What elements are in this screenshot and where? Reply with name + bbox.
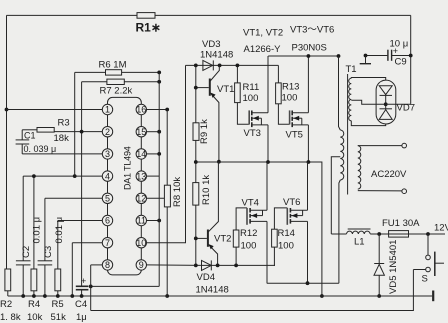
svg-text:13: 13	[136, 171, 146, 181]
svg-text:100: 100	[278, 241, 294, 252]
node junction R6/pin4	[73, 174, 77, 178]
wire right +12V vertical	[410, 15, 412, 104]
wire L1 left lead	[331, 233, 346, 235]
node junction R6 right	[157, 71, 161, 75]
node junction R10/VD4 line	[194, 264, 198, 268]
wire C9 right lead	[392, 55, 411, 57]
node junction pin11	[157, 219, 161, 223]
wire R10 bottom	[195, 205, 197, 265]
capacitor C1 bottom lead	[21, 144, 23, 154]
node junction VT5/VT6/mid bus	[307, 160, 311, 164]
node junction R12/VD4 line	[234, 264, 238, 268]
svg-text:R11: R11	[243, 82, 260, 93]
node junction VD7 center	[384, 102, 388, 106]
node junction VT2 emitter / VD4 line	[216, 264, 220, 268]
transistor VT6	[286, 208, 288, 225]
resistor R4	[31, 269, 37, 291]
wire pin10	[147, 65, 186, 242]
terminal switch upper	[426, 255, 431, 260]
node junction pin16	[165, 108, 169, 112]
wire pin7	[72, 242, 102, 244]
node junction left border / pin1	[5, 108, 9, 112]
wire pin8 down	[90, 265, 92, 311]
wire T1 left winding tap	[331, 157, 340, 234]
svg-text:C4: C4	[75, 299, 87, 310]
svg-text:6: 6	[105, 216, 110, 226]
wire C3 bottom lead	[44, 265, 46, 296]
svg-text:VD3: VD3	[202, 39, 220, 50]
node junction VD3/R9	[194, 64, 198, 68]
resistor R13	[276, 83, 282, 104]
wire pin1 to left border	[7, 109, 103, 111]
svg-text:12: 12	[136, 194, 146, 204]
transistor VT5 drain riser	[307, 56, 309, 113]
transistor VT3 source riser	[267, 125, 269, 162]
svg-text:0. 039 μ: 0. 039 μ	[24, 144, 57, 154]
svg-text:5: 5	[105, 194, 110, 204]
svg-text:8: 8	[105, 260, 110, 270]
inductor L1 core bar	[348, 228, 371, 230]
transistor VT5 arrow	[293, 116, 299, 121]
svg-text:R3: R3	[58, 118, 70, 129]
svg-text:VD5 1N5401: VD5 1N5401	[388, 240, 399, 294]
wire C2 bottom lead	[22, 265, 24, 296]
svg-text:R1∗: R1∗	[136, 21, 161, 35]
wire VT4/VT6 drain rail	[267, 282, 339, 284]
wire pin6	[58, 220, 103, 222]
terminal AC bottom	[402, 189, 407, 194]
wire T1 secondary bottom lead	[358, 190, 402, 192]
pin 12 of DA1	[136, 193, 146, 203]
transistor VT5 arrow link	[301, 118, 303, 125]
svg-text:+: +	[81, 276, 86, 286]
svg-text:100: 100	[282, 93, 298, 104]
node junction C2/rail	[21, 294, 25, 298]
node junction pin7/rail	[70, 294, 74, 298]
wire R4 vertical	[33, 176, 35, 269]
node junction VT6 drain / rail	[306, 281, 310, 285]
wire R13 top	[277, 65, 279, 83]
pin 6 of DA1	[102, 215, 112, 225]
svg-text:R2: R2	[0, 299, 12, 310]
transistor VT2 base lead	[196, 237, 207, 239]
diode VD4	[202, 260, 212, 270]
wire R14 bottom	[273, 247, 276, 265]
wire pin4	[23, 175, 102, 177]
wire switch lower to border	[413, 269, 425, 271]
pin 7 of DA1	[102, 238, 112, 248]
node junction VT1 base	[194, 86, 198, 90]
svg-text:L1: L1	[354, 237, 365, 248]
wire R7 left lead	[82, 81, 107, 83]
transistor VT6 arrow link	[302, 210, 304, 215]
node junction R8/rail	[165, 294, 169, 298]
transistor VT1 emitter	[210, 93, 219, 162]
transistor VT1 collector	[210, 65, 220, 81]
node junction VD5/rail	[377, 294, 381, 298]
transistor VT2 emitter arrow	[209, 244, 214, 249]
node junction VT1 emitter / mid bus	[217, 160, 221, 164]
pin 4 of DA1	[102, 171, 112, 181]
wire pin16 to R8 line	[147, 109, 168, 111]
pin 16 of DA1	[136, 104, 146, 114]
transistor VT3 gate lead	[237, 103, 249, 125]
transistor VT2 emitter	[208, 244, 218, 265]
wire R8 bottom	[166, 207, 168, 296]
svg-text:1: 1	[105, 105, 110, 115]
transistor VT4 arrow	[251, 213, 257, 218]
wire pin5	[45, 197, 102, 199]
svg-text:VD7: VD7	[397, 103, 415, 114]
transistor VT6 arrow	[291, 213, 297, 218]
wire VD3 line	[186, 64, 279, 66]
svg-text:0.01 μ: 0.01 μ	[54, 217, 65, 244]
svg-text:A1266-Y: A1266-Y	[244, 44, 282, 55]
svg-text:4: 4	[105, 171, 110, 181]
fuse FU1	[389, 231, 409, 238]
wire C2 vertical	[22, 176, 24, 261]
wire VD5 top lead	[378, 234, 380, 264]
ground symbol at C9	[365, 56, 367, 64]
svg-text:S: S	[422, 274, 428, 285]
inductor T1 primary left winding	[340, 130, 343, 180]
svg-text:3: 3	[105, 149, 110, 159]
svg-text:VT3: VT3	[244, 128, 261, 139]
transistor VT4 gate lead	[236, 208, 247, 230]
svg-text:R10 1k: R10 1k	[201, 175, 212, 205]
node junction VD3 cathode	[218, 64, 222, 68]
switch S blade	[434, 252, 436, 276]
node junction C3/rail	[43, 294, 47, 298]
wire R2 top lead	[7, 268, 8, 270]
resistor R6	[106, 70, 122, 75]
terminal AC top	[402, 143, 407, 148]
transistor VT2 collector	[208, 162, 219, 233]
svg-text:0.01 μ: 0.01 μ	[32, 217, 43, 244]
pin 10 of DA1	[136, 238, 146, 248]
transistor VT1 emitter arrow	[211, 93, 216, 98]
resistor R8	[164, 185, 170, 207]
svg-text:C2: C2	[21, 246, 32, 258]
node junction R4/rail	[32, 294, 36, 298]
svg-text:18k: 18k	[54, 133, 70, 144]
node junction VT5 drain / top bus	[307, 54, 311, 58]
wire R10 top	[195, 162, 197, 183]
svg-text:VT1, VT2: VT1, VT2	[243, 28, 283, 39]
transistor VT2 base bar	[207, 230, 209, 247]
node junction VT2 base	[194, 237, 198, 241]
wire ground rail	[8, 295, 432, 297]
wire T1 secondary top lead	[358, 145, 402, 147]
wire T1 left winding bottom	[339, 180, 340, 283]
svg-text:R7 2.2k: R7 2.2k	[100, 86, 133, 97]
wire R7/C4 vertical	[81, 82, 83, 286]
node junction C4/rail	[80, 294, 84, 298]
inductor T1 secondary winding	[358, 146, 361, 189]
inductor T1 feedback winding	[349, 78, 352, 120]
wire T1 feedback top lead	[351, 78, 385, 81]
svg-text:VT4: VT4	[242, 198, 259, 209]
node junction pin14	[157, 152, 161, 156]
wire VD7 center to +12V	[386, 103, 411, 105]
svg-text:12V: 12V	[434, 223, 448, 234]
wire R12 bottom	[235, 247, 237, 265]
resistor R10	[193, 183, 199, 206]
inductor L1	[347, 231, 371, 234]
node junction top bus right	[337, 54, 341, 58]
svg-text:R12: R12	[240, 228, 257, 239]
node junction L1/VD5	[377, 232, 381, 236]
wire C4 bottom lead	[81, 290, 83, 296]
svg-text:R9 1k: R9 1k	[199, 119, 210, 144]
wire pin15	[147, 131, 160, 133]
wire R9 bottom	[195, 140, 197, 162]
wire VD5 bottom lead	[378, 275, 380, 296]
svg-text:7: 7	[105, 238, 110, 248]
svg-text:R14: R14	[278, 228, 295, 239]
wire R5 vertical	[57, 221, 59, 270]
wire W1 under IC	[91, 285, 160, 287]
wire pin3 to C1	[22, 153, 102, 155]
diode VD3	[203, 60, 213, 70]
svg-text:VT5: VT5	[286, 130, 303, 141]
wire R9 top	[195, 65, 197, 122]
resistor R9	[193, 123, 199, 141]
wire pin13	[147, 175, 160, 177]
transistor VT5 source riser	[307, 125, 309, 162]
node junction R7 right	[157, 80, 161, 84]
pin 11 of DA1	[136, 215, 146, 225]
wire pin14	[147, 153, 160, 155]
resistor R7	[107, 79, 124, 84]
pin 14 of DA1	[136, 149, 146, 159]
node junction mid bus / rail	[320, 294, 324, 298]
wire T1 feedback bottom lead	[351, 121, 385, 126]
svg-text:16: 16	[136, 105, 146, 115]
pin 1 of DA1	[102, 104, 112, 114]
svg-text:1. 8k: 1. 8k	[0, 312, 21, 323]
transistor VT4 source riser	[266, 162, 268, 210]
transistor VT6 source riser	[307, 162, 309, 210]
wire top rail right segment	[155, 14, 411, 16]
transistor VT6 gate lead	[274, 208, 287, 229]
svg-text:100: 100	[243, 93, 259, 104]
capacitor C1 plates	[16, 139, 30, 141]
pin 3 of DA1	[102, 149, 112, 159]
svg-text:10: 10	[136, 238, 146, 248]
node junction 12V/S	[426, 232, 430, 236]
pin 2 of DA1	[102, 127, 112, 137]
node junction R9/R10/mid bus	[194, 160, 198, 164]
svg-text:10k: 10k	[27, 312, 43, 323]
transistor VT1 base lead	[196, 87, 209, 89]
pin 9 of DA1	[136, 260, 146, 270]
wire C9 left lead	[366, 55, 388, 57]
transistor VT3 arrow	[253, 116, 259, 121]
wire R7 right lead	[124, 81, 159, 83]
svg-text:R8 10k: R8 10k	[172, 177, 183, 207]
capacitor C4 plates	[76, 285, 89, 287]
transistor VT3 arrow link	[260, 118, 262, 125]
svg-text:R6 1M: R6 1M	[99, 60, 127, 71]
svg-text:FU1 30A: FU1 30A	[382, 218, 420, 229]
svg-text:VD4: VD4	[197, 272, 215, 283]
svg-text:9: 9	[139, 260, 144, 270]
svg-text:R5: R5	[52, 299, 64, 310]
pin 13 of DA1	[136, 171, 146, 181]
wire C3 vertical	[44, 198, 46, 260]
wire R6 left lead	[75, 71, 106, 73]
node junction pin15	[157, 130, 161, 134]
wire bottom border	[91, 270, 414, 311]
transistor VT3	[248, 110, 250, 124]
svg-text:C3: C3	[43, 246, 54, 258]
wire R3 left lead	[22, 129, 37, 131]
wire pin9 / VD4 line left part	[147, 264, 201, 267]
wire T1 feedback tap	[351, 100, 385, 104]
resistor R2	[5, 269, 11, 291]
svg-text:VT6: VT6	[283, 197, 300, 208]
capacitor C9 plates	[387, 50, 389, 61]
wire mid ground bus	[196, 162, 322, 296]
capacitor C1 top lead	[21, 130, 23, 140]
diode pair VD7 outline	[376, 80, 396, 124]
resistor R5	[55, 269, 61, 291]
wire pin11	[147, 220, 160, 222]
wire VD4 line	[201, 264, 275, 266]
node junction R5/rail	[56, 294, 60, 298]
svg-text:T1: T1	[346, 64, 357, 75]
wire pin2 to R3	[54, 131, 102, 133]
pin 8 of DA1	[102, 260, 112, 270]
svg-text:15: 15	[136, 127, 146, 137]
node junction R11 top	[236, 64, 240, 68]
node junction C9 left	[364, 54, 368, 58]
wire top bus to primary top	[339, 56, 341, 130]
resistor R1	[137, 13, 155, 19]
svg-text:1N4148: 1N4148	[196, 285, 229, 296]
wire R4 bottom lead	[33, 291, 35, 296]
transistor VT1 base bar	[209, 79, 211, 96]
transistor VT4 drain drop	[266, 221, 268, 283]
pin 5 of DA1	[102, 193, 112, 203]
diode VD5	[374, 263, 384, 265]
wire pin7 ground drop	[71, 243, 73, 296]
wire pin8	[91, 264, 103, 266]
transistor VT5 gate lead	[278, 104, 289, 125]
transistor VT4	[246, 208, 248, 225]
wire R11 top	[236, 65, 238, 83]
wire R8 top	[166, 110, 168, 186]
diode VD7 upper	[379, 86, 392, 95]
svg-text:2: 2	[105, 127, 110, 137]
transistor VT5	[289, 110, 291, 124]
wire R5 bottom lead	[57, 291, 59, 296]
wire left border	[6, 15, 8, 269]
svg-text:VT1: VT1	[217, 84, 234, 95]
transistor VT4 arrow link	[262, 210, 264, 215]
node junction W1/pin8	[89, 285, 93, 289]
svg-text:VT3～VT6: VT3～VT6	[290, 25, 334, 36]
transistor VT6 drain drop	[307, 221, 309, 283]
node junction VT3/VT4/mid bus	[266, 160, 270, 164]
wire R2 bottom lead	[7, 291, 9, 296]
svg-text:DA1 TL494: DA1 TL494	[122, 146, 132, 190]
svg-text:11: 11	[137, 216, 146, 226]
terminal switch lower	[426, 267, 431, 272]
resistor R14	[272, 229, 278, 247]
wire pin12	[147, 197, 165, 199]
svg-text:10 μ: 10 μ	[390, 39, 409, 50]
battery plate symbol	[432, 291, 434, 302]
capacitor C2 plates	[16, 260, 31, 262]
resistor R11	[235, 83, 241, 103]
node junction C9 right	[409, 54, 413, 58]
transistor VT3 drain riser	[267, 56, 269, 113]
diode VD7 lower	[380, 108, 393, 110]
svg-text:C9: C9	[395, 57, 407, 68]
capacitor C3 plates	[38, 260, 53, 262]
svg-text:1N4148: 1N4148	[200, 50, 233, 61]
svg-text:51k: 51k	[51, 312, 67, 323]
svg-text:VT2: VT2	[214, 234, 231, 245]
svg-text:AC220V: AC220V	[371, 169, 407, 180]
op-amp U1 IC DA1 TL494 body	[108, 97, 142, 275]
pin 15 of DA1	[136, 127, 146, 137]
wire R6 right lead	[122, 71, 160, 73]
wire top drain bus	[268, 55, 338, 57]
svg-text:P30N0S: P30N0S	[292, 43, 327, 54]
svg-text:C1: C1	[24, 131, 36, 141]
resistor R12	[233, 230, 239, 247]
wire top rail left segment	[7, 14, 138, 16]
wire vertical right of IC	[158, 72, 160, 286]
svg-text:14: 14	[136, 149, 146, 159]
svg-text:100: 100	[241, 241, 257, 252]
node junction R7/pin2	[80, 130, 84, 134]
transformer T1 core	[347, 74, 349, 195]
resistor R3	[37, 128, 54, 133]
wire R6 left vertical to pin4	[74, 72, 76, 176]
node junction R4/pin4	[32, 174, 36, 178]
svg-text:R4: R4	[28, 299, 40, 310]
wire 12V to switch	[427, 234, 429, 255]
wire L1 to FU1	[370, 233, 388, 235]
wire FU1 to 12V	[409, 233, 446, 235]
svg-text:R13: R13	[282, 82, 299, 93]
svg-text:1μ: 1μ	[76, 312, 87, 323]
